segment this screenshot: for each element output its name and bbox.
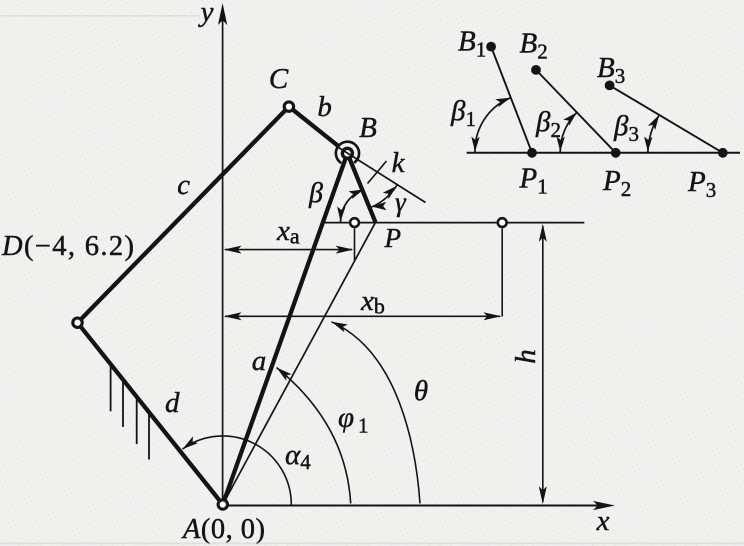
svg-text:D(−4, 6.2): D(−4, 6.2)	[1, 231, 134, 262]
svg-text:C: C	[269, 63, 289, 95]
svg-text:c: c	[177, 169, 190, 201]
svg-text:B: B	[359, 112, 377, 144]
svg-text:h: h	[510, 349, 542, 364]
svg-text:θ: θ	[414, 375, 428, 407]
svg-text:y: y	[198, 0, 214, 28]
svg-text:x: x	[596, 505, 610, 537]
svg-text:d: d	[165, 387, 180, 419]
svg-text:β: β	[308, 178, 323, 209]
svg-text:k: k	[392, 147, 406, 179]
svg-text:γ: γ	[395, 187, 407, 217]
svg-text:a: a	[252, 345, 267, 377]
svg-text:b: b	[317, 91, 332, 123]
svg-text:A(0, 0): A(0, 0)	[181, 514, 265, 545]
svg-text:P: P	[384, 223, 402, 253]
